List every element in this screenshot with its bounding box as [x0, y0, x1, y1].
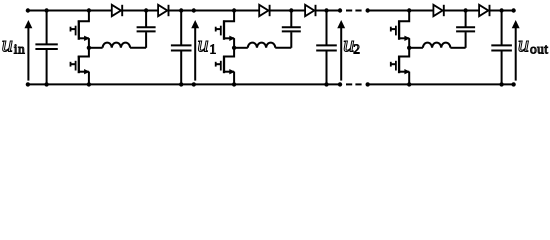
- wire bottom rail dashed break: [346, 83, 362, 85]
- inductor L1: [89, 32, 146, 48]
- voltage arrow u_in: [24, 20, 32, 81]
- transistor Q2b (low side): [216, 48, 235, 85]
- svg-text:in: in: [14, 41, 25, 56]
- inductor L3: [409, 32, 465, 48]
- node u_out top terminal: [511, 8, 515, 12]
- wire top rail left section: [28, 10, 341, 12]
- node u_2 bottom terminal: [338, 82, 342, 86]
- node Cin top junction: [44, 8, 48, 12]
- node u_out bottom terminal: [511, 82, 515, 86]
- wire bottom rail left section: [28, 83, 341, 85]
- svg-text:out: out: [530, 41, 548, 56]
- node Q2b source on bottom rail: [232, 82, 236, 86]
- node C1 top junction: [179, 8, 183, 12]
- voltage arrow u_out: [512, 20, 520, 81]
- node Q1b source on bottom rail: [87, 82, 91, 86]
- transistor Q3b (low side): [391, 48, 410, 85]
- node u_in bottom terminal: [26, 82, 30, 86]
- node Cf2 top junction: [289, 8, 293, 12]
- node Q2a drain on top rail: [232, 8, 236, 12]
- svg-text:1: 1: [210, 41, 217, 56]
- transistor Q1a (high side): [71, 11, 90, 48]
- svg-text:u: u: [518, 32, 530, 57]
- node Q1a drain on top rail: [87, 8, 91, 12]
- node Cin bottom junction: [44, 82, 48, 86]
- transistor Q1b (low side): [71, 48, 90, 85]
- capacitor C3: [491, 11, 512, 85]
- node switch midpoint stage 2: [232, 46, 236, 50]
- diode D1b: [158, 5, 168, 16]
- node C1 bottom junction: [179, 82, 183, 86]
- wire top rail right section: [366, 10, 514, 12]
- diode D3b: [479, 5, 489, 16]
- node C3 top junction: [499, 8, 503, 12]
- node C2 top junction: [324, 8, 328, 12]
- diode D1a: [112, 5, 122, 16]
- capacitor Cin: [35, 11, 57, 85]
- wire bottom rail right section: [366, 83, 514, 85]
- svg-text:u: u: [2, 32, 14, 57]
- node switch midpoint stage 3: [407, 46, 411, 50]
- node bottom rail break junction: [366, 82, 370, 86]
- transistor Q3a (high side): [391, 11, 410, 48]
- inductor L2: [234, 32, 291, 48]
- node u_1 top terminal: [192, 8, 196, 12]
- node Cf1 top junction: [144, 8, 148, 12]
- diode D2b: [305, 5, 315, 16]
- node C2 bottom junction: [324, 82, 328, 86]
- node u_1 bottom terminal: [192, 82, 196, 86]
- capacitor C2: [316, 11, 337, 85]
- voltage arrow u_2: [337, 20, 345, 81]
- capacitor Cf3 (flying): [456, 11, 475, 32]
- diode D3a: [433, 5, 443, 16]
- node switch midpoint stage 1: [87, 46, 91, 50]
- svg-text:u: u: [197, 32, 209, 57]
- diode D2a: [259, 5, 269, 16]
- wire top rail dashed break: [346, 10, 362, 12]
- capacitor C1: [171, 11, 192, 85]
- node Cf3 top junction: [463, 8, 467, 12]
- node u_in top terminal: [26, 8, 30, 12]
- node Q3b source on bottom rail: [407, 82, 411, 86]
- capacitor Cf2 (flying): [282, 11, 301, 32]
- node C3 bottom junction: [499, 82, 503, 86]
- voltage arrow u_1: [191, 20, 199, 81]
- node top rail break junction: [366, 8, 370, 12]
- transistor Q2a (high side): [216, 11, 235, 48]
- svg-text:2: 2: [353, 41, 360, 56]
- node u_2 top terminal: [338, 8, 342, 12]
- node Q3a drain on top rail: [407, 8, 411, 12]
- capacitor Cf1 (flying): [137, 11, 156, 32]
